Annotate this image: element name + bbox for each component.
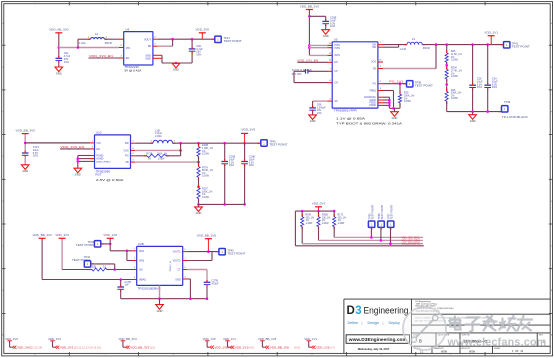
power VDD_1V1 (D) <box>484 31 498 38</box>
svg-text:100_1%: 100_1% <box>306 217 315 219</box>
junction <box>471 43 474 46</box>
wire <box>446 101 448 111</box>
test point TP37 <box>388 221 394 227</box>
svg-text:VDD_3V0_EN: VDD_3V0_EN <box>89 54 113 58</box>
wire <box>312 111 314 115</box>
ground GND (divider B) <box>195 207 203 215</box>
junction <box>370 236 373 239</box>
svg-text:PG: PG <box>373 84 377 86</box>
label R77A values <box>202 166 214 177</box>
capacitor C20 <box>189 47 196 54</box>
svg-text:VDD_3V0_EN: VDD_3V0_EN <box>60 145 84 149</box>
svg-text:TEST POINT: TEST POINT <box>76 244 95 247</box>
svg-text:10%: 10% <box>64 60 70 64</box>
junction <box>189 297 192 300</box>
pin stub into TP38 <box>403 83 406 85</box>
test point TP43 <box>219 249 225 255</box>
svg-text:VDD_1V8: VDD_1V8 <box>103 233 117 237</box>
capacitor C12B <box>221 159 228 166</box>
wire <box>206 286 208 299</box>
wire <box>114 264 116 270</box>
pin SW stub <box>378 44 383 46</box>
wire <box>191 39 193 48</box>
power flag VDD_BB_1V8 (sheet connector) <box>258 337 300 349</box>
label C24 values <box>492 77 498 90</box>
svg-text:2.5V @ 0.50A: 2.5V @ 0.50A <box>96 178 125 182</box>
svg-text:EN: EN <box>96 148 100 151</box>
svg-text:VDD_3V3: VDD_3V3 <box>60 345 74 349</box>
resistor R20B <box>318 214 320 217</box>
svg-text:GND: GND <box>145 57 151 60</box>
wire <box>394 108 396 111</box>
wire <box>88 57 119 59</box>
svg-text:EN: EN <box>126 57 130 60</box>
pin FREQ stub <box>378 90 383 92</box>
svg-text:3 OF 10: 3 OF 10 <box>512 351 524 353</box>
pin EN stub <box>328 61 333 63</box>
power flag VDD_3V3 (sheet connector) <box>48 337 101 349</box>
svg-text:TP39: TP39 <box>504 100 511 104</box>
capacitor C108 <box>241 159 248 166</box>
pin VOUT1 stub <box>183 251 188 253</box>
pin EN stub <box>90 148 95 150</box>
pin ON stub <box>132 269 137 271</box>
wire <box>383 96 389 98</box>
svg-text:[4,6]: [4,6] <box>249 345 254 349</box>
junction <box>380 239 383 242</box>
svg-text:10%: 10% <box>249 163 255 167</box>
svg-text:GND: GND <box>173 68 179 72</box>
resistor R204 <box>446 67 448 70</box>
svg-text:FB: FB <box>148 45 152 48</box>
wire <box>161 55 163 63</box>
junction <box>445 83 448 86</box>
wire <box>78 158 90 160</box>
junction <box>206 297 209 300</box>
wire <box>308 70 327 72</box>
wire <box>294 82 328 84</box>
svg-text:PWR_F_90: PWR_F_90 <box>170 260 172 271</box>
wire <box>158 38 215 40</box>
pin stub into TP13 <box>212 38 215 40</box>
wire <box>318 207 320 211</box>
label R29 values <box>404 92 415 103</box>
ground GND (U10) <box>74 168 82 176</box>
svg-text:[10,12,14]: [10,12,14] <box>30 345 42 349</box>
wire <box>301 211 303 217</box>
svg-text:100K_1%: 100K_1% <box>157 153 168 156</box>
svg-text:10%: 10% <box>492 85 498 89</box>
label R107 values <box>202 188 213 199</box>
svg-text:GND: GND <box>22 169 28 173</box>
box www.D3Engineering.com <box>346 335 409 344</box>
pin stub from TP36 <box>380 227 382 230</box>
wire <box>472 112 474 115</box>
pin VIN2 stub <box>132 260 137 262</box>
wire <box>309 15 325 17</box>
pin 4 EN stub <box>119 57 124 59</box>
svg-text:SS: SS <box>334 101 338 103</box>
wire <box>126 251 128 261</box>
wire <box>380 227 382 240</box>
watermark stamp circle <box>403 307 446 350</box>
label R240 values <box>306 215 315 225</box>
resistor R77A <box>198 164 200 167</box>
svg-text:TEST POINT: TEST POINT <box>371 204 374 219</box>
wire <box>294 70 305 72</box>
test point TP36 <box>378 221 384 227</box>
wire <box>446 45 448 53</box>
wire <box>295 210 334 212</box>
wire <box>135 161 198 163</box>
svg-text:L3: L3 <box>412 37 416 41</box>
svg-text:1%: 1% <box>322 220 325 222</box>
svg-text:AGND: AGND <box>369 99 376 102</box>
svg-text:VOS: VOS <box>371 62 376 64</box>
junction <box>388 99 391 102</box>
svg-text:CT: CT <box>177 269 181 272</box>
svg-text:1/16W: 1/16W <box>306 223 314 225</box>
svg-text:VDD_1V1: VDD_1V1 <box>316 345 330 349</box>
junction <box>486 110 489 113</box>
wire <box>162 62 192 64</box>
wire <box>309 54 327 56</box>
wire <box>172 39 174 46</box>
label C98 values <box>317 104 326 115</box>
wire <box>308 10 310 55</box>
test point TP41 <box>504 42 510 48</box>
inductor L3 <box>404 44 407 46</box>
label R204 values <box>451 67 463 78</box>
company address block <box>416 300 455 313</box>
wire <box>333 211 335 217</box>
power VDD_BB_1V8 <box>197 233 217 240</box>
wire <box>318 211 320 217</box>
junction <box>243 203 246 206</box>
svg-text:CP: CP <box>334 71 338 73</box>
svg-text:1/16W: 1/16W <box>322 223 330 225</box>
wire <box>120 291 122 299</box>
svg-text:R71B: R71B <box>146 153 152 156</box>
wire <box>224 165 226 204</box>
pin AGND/PGND stub <box>378 96 383 98</box>
wire <box>388 97 390 108</box>
junction <box>389 242 392 245</box>
wire <box>58 62 60 67</box>
pin 8 VIN stub <box>119 47 124 49</box>
svg-text:VDD_1V1: VDD_1V1 <box>484 31 498 35</box>
wire <box>78 38 91 40</box>
svg-text:U5: U5 <box>334 38 338 42</box>
power VDD_1V8 (C) <box>103 233 117 240</box>
wire <box>318 227 320 241</box>
capacitor C27B <box>204 280 211 287</box>
svg-text:AGND (FPAD): AGND (FPAD) <box>96 160 110 163</box>
op-amp U10 body (regulator TPS62090) <box>95 135 131 169</box>
junction <box>445 64 448 67</box>
svg-text:TEST POINT: TEST POINT <box>381 204 384 219</box>
junction <box>126 250 129 253</box>
wire <box>180 143 182 156</box>
svg-text:1/16W: 1/16W <box>404 100 412 103</box>
junction <box>77 160 80 163</box>
capacitor C15B <box>322 19 329 26</box>
test point TP39 <box>502 106 508 112</box>
wire <box>472 45 474 84</box>
junction <box>301 210 304 213</box>
wire <box>187 278 190 280</box>
svg-text:1.1V @ 0.65A: 1.1V @ 0.65A <box>336 117 366 121</box>
svg-text:VDD_BB_3V3: VDD_BB_3V3 <box>32 233 52 237</box>
svg-text:VIN: VIN <box>126 47 130 50</box>
resistor R29 <box>399 92 401 95</box>
pin AVIN stub <box>328 54 333 56</box>
label C21 values <box>64 51 71 64</box>
wire <box>244 165 246 204</box>
capacitor C24 <box>484 83 491 90</box>
svg-text:TEST POINT: TEST POINT <box>415 84 434 87</box>
junction <box>197 186 200 189</box>
wire <box>25 142 90 144</box>
svg-text:PVIN: PVIN <box>334 48 340 50</box>
wire <box>191 52 193 63</box>
label C20 values <box>196 44 203 57</box>
junction <box>308 44 311 47</box>
svg-text:VDD_AB_3V0: VDD_AB_3V0 <box>49 28 69 32</box>
wire <box>198 177 200 188</box>
svg-text:VDD_1V8: VDD_1V8 <box>215 345 229 349</box>
svg-text:AGND: AGND <box>96 158 103 161</box>
svg-text:GND: GND <box>470 119 476 123</box>
pin PG stub <box>131 155 136 157</box>
svg-text:VID_RESETZ: VID_RESETZ <box>402 241 421 245</box>
svg-text:[10]: [10] <box>150 345 155 349</box>
test point TP46 <box>94 241 100 247</box>
wire <box>487 89 489 112</box>
svg-text:GND: GND <box>196 211 202 215</box>
svg-text:FREQ: FREQ <box>370 90 377 92</box>
resistor R26 <box>446 50 448 53</box>
label R172 values <box>338 215 347 225</box>
label R26 values <box>451 50 463 61</box>
wire <box>383 99 389 101</box>
pin VBIAS stub <box>132 279 137 281</box>
svg-text:|: | <box>383 321 384 325</box>
svg-text:100_1%: 100_1% <box>322 217 331 219</box>
pin 3 FB stub <box>153 45 158 47</box>
wire <box>127 260 132 262</box>
junction <box>223 203 226 206</box>
wire <box>301 227 303 244</box>
wire <box>297 61 327 63</box>
pin PVIN stub <box>328 44 333 46</box>
pin AGND/PGND stub <box>378 104 383 106</box>
svg-text:VOUT1: VOUT1 <box>173 251 182 254</box>
op-amp U2B body (load switch TPS2051B) <box>137 246 183 285</box>
svg-text:FB: FB <box>126 161 129 164</box>
svg-text:VDD_3V0: VDD_3V0 <box>196 28 210 32</box>
svg-text:10%: 10% <box>477 85 483 89</box>
svg-text:VOUT: VOUT <box>144 38 151 41</box>
capacitor C231 <box>303 69 310 74</box>
svg-text:VDD_BB_1V8: VDD_BB_1V8 <box>197 233 217 237</box>
ground GND (U2B) <box>156 305 164 313</box>
wire <box>107 269 132 271</box>
svg-text:50V 10%: 50V 10% <box>292 73 303 76</box>
svg-text:PG_1V1: PG_1V1 <box>389 80 403 84</box>
junction <box>179 149 182 152</box>
pin CT stub <box>183 269 188 271</box>
wire <box>383 102 389 104</box>
op-amp U5 body (regulator TPS62801) <box>332 42 378 108</box>
wire <box>319 239 424 241</box>
svg-text:GND: GND <box>323 34 329 38</box>
svg-text:WSW: WSW <box>441 351 448 353</box>
wire <box>135 142 153 144</box>
wire <box>120 280 122 286</box>
wire <box>211 252 213 261</box>
wire <box>198 143 200 146</box>
wire <box>62 269 92 271</box>
tagline Define Design Deploy <box>348 321 401 325</box>
svg-text:D: D <box>347 305 355 317</box>
svg-text:VDD_1V1: VDD_1V1 <box>235 345 249 349</box>
junction <box>388 104 391 107</box>
svg-text:VIN1: VIN1 <box>139 250 145 253</box>
junction <box>471 110 474 113</box>
label R20B values <box>322 215 331 225</box>
wire <box>135 155 147 157</box>
svg-text:1%: 1% <box>306 220 309 222</box>
svg-text:1/16W: 1/16W <box>202 153 210 156</box>
pin GND stub <box>153 54 162 56</box>
svg-text:GND: GND <box>392 116 398 120</box>
junction <box>435 43 438 46</box>
wire <box>383 68 436 70</box>
svg-text:VIN2: VIN2 <box>139 260 145 263</box>
junction <box>333 210 336 213</box>
pin SS stub <box>328 100 333 102</box>
resistor R71B <box>144 155 147 157</box>
resistor R172 <box>333 214 335 217</box>
power VDD_3V0 <box>196 28 210 35</box>
pin AGND/PGND stub <box>378 102 383 104</box>
capacitor C26 <box>469 83 476 90</box>
ground GND (C98) <box>309 115 317 123</box>
wire <box>383 46 399 48</box>
svg-text:VBIAS: VBIAS <box>139 279 146 282</box>
test point TP38 <box>407 81 413 87</box>
pin VIN1 stub <box>132 250 137 252</box>
wire <box>198 156 200 166</box>
svg-text:VOUT2: VOUT2 <box>173 260 182 263</box>
wire <box>325 25 327 30</box>
test point TP13 <box>215 36 221 42</box>
op-amp U4 body (regulator TPS62240) <box>124 32 153 65</box>
wire <box>244 134 246 143</box>
pin FB stub <box>131 161 136 163</box>
svg-text:1/16W: 1/16W <box>158 158 166 161</box>
logo D3 Engineering <box>347 305 409 317</box>
power flag VDD_3V0 (sheet connector) <box>5 337 42 349</box>
wire <box>187 269 207 271</box>
junction <box>197 161 200 164</box>
power flag VDD_BB_3V3 (sheet connector) <box>118 337 154 349</box>
svg-text:Wednesday, July 19, 2017: Wednesday, July 19, 2017 <box>358 347 390 351</box>
wire <box>199 203 245 205</box>
wire <box>472 89 474 112</box>
pin PG stub <box>378 83 383 85</box>
wire <box>312 101 314 107</box>
capacitor C98 <box>309 106 316 113</box>
junction <box>171 38 174 41</box>
junction <box>223 142 226 145</box>
svg-text:GND: GND <box>310 119 316 123</box>
wire <box>399 103 401 108</box>
svg-text:1%: 1% <box>338 220 341 222</box>
wire <box>383 90 394 92</box>
wire <box>201 33 203 39</box>
wire <box>487 45 489 84</box>
wire <box>77 39 79 47</box>
wire <box>309 47 327 49</box>
wire <box>42 279 132 281</box>
power flag VDD_1V1 (sheet connector) <box>304 337 335 349</box>
pin stub into TP42 <box>258 142 261 144</box>
svg-text:1.0uH: 1.0uH <box>400 48 407 51</box>
label C26 values <box>477 77 483 90</box>
svg-text:U2B: U2B <box>138 242 144 246</box>
svg-text:EN: EN <box>334 62 338 64</box>
wire <box>135 149 180 151</box>
svg-text:1uF: 1uF <box>125 284 130 287</box>
svg-text:10%: 10% <box>330 24 336 28</box>
pin stub into TP39 <box>498 111 501 113</box>
wire <box>166 155 181 157</box>
pin AGND stub <box>90 158 95 160</box>
svg-text:Define: Define <box>348 321 359 325</box>
pin stub into TP41 <box>500 44 503 46</box>
row size / cage / dwg headers <box>413 334 544 337</box>
test point TP42 <box>261 140 267 146</box>
junction <box>317 210 320 213</box>
junction <box>179 142 182 145</box>
wire <box>173 142 261 144</box>
svg-text:U10: U10 <box>96 131 102 135</box>
wire <box>294 211 296 246</box>
pin stub into TP43 <box>216 251 219 253</box>
label C714 values <box>33 145 40 158</box>
power VDD_3V3 (C) <box>55 233 69 240</box>
svg-text:1/16W: 1/16W <box>451 75 459 78</box>
svg-text:Deploy: Deploy <box>389 321 401 325</box>
svg-text:TEST POINT: TEST POINT <box>224 40 243 43</box>
svg-text:VOS: VOS <box>124 149 130 152</box>
junction <box>197 142 200 145</box>
label C108 values <box>249 155 256 168</box>
svg-text:VDD_3V3: VDD_3V3 <box>55 233 69 237</box>
wire <box>187 260 212 262</box>
svg-text:VDD_BB_3V0: VDD_BB_3V0 <box>300 4 320 8</box>
test point TP44 <box>84 261 90 267</box>
svg-text:2.96A: 2.96A <box>155 134 162 138</box>
svg-text:[8,9]: [8,9] <box>295 345 300 349</box>
wire <box>435 45 437 69</box>
wire <box>77 156 79 169</box>
svg-text:[4,7]: [4,7] <box>330 345 335 349</box>
svg-text:1/16W: 1/16W <box>451 59 459 62</box>
svg-text:AGND(SIG): AGND(SIG) <box>364 96 376 99</box>
